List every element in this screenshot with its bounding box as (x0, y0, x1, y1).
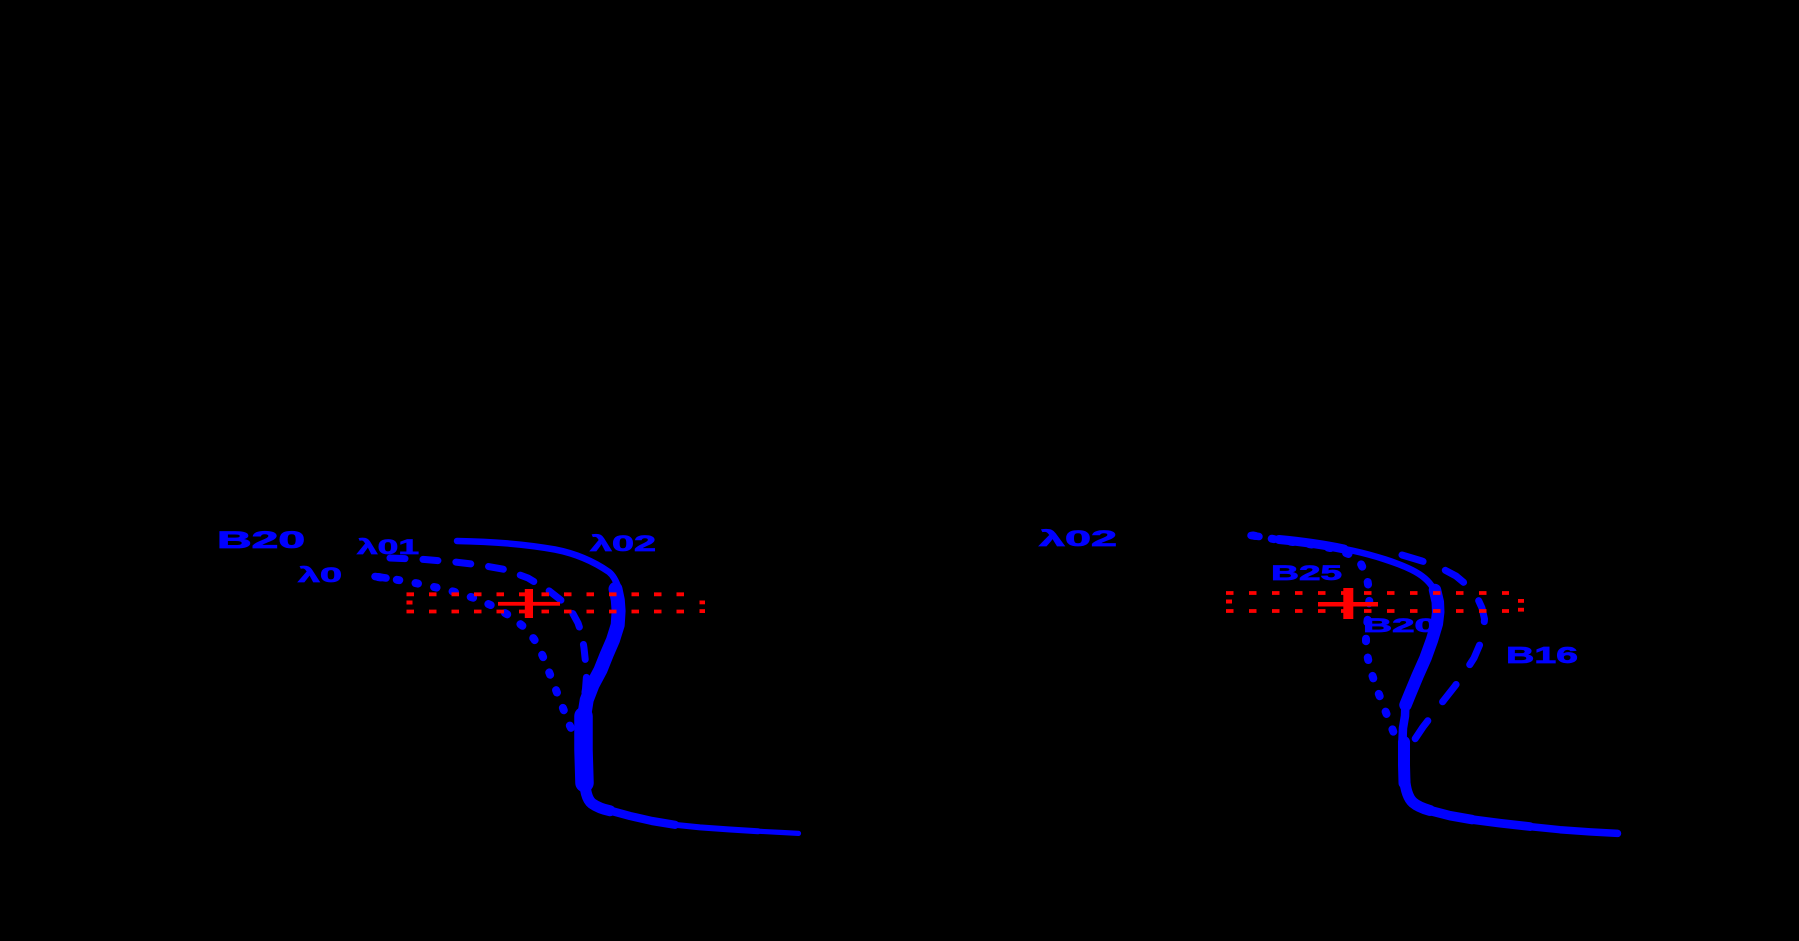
right panel red cross vertical bar (1343, 588, 1353, 619)
left panel solid curve lambda-02 fat descent (585, 589, 619, 712)
left panel dashed curve lambda-01 (390, 558, 587, 701)
left panel solid curve tail end (758, 831, 799, 833)
right panel dotted curve B25 first elongated dot (1251, 536, 1259, 537)
right panel solid curve start thick overlap (1279, 540, 1344, 550)
svg-text:B20: B20 (1363, 616, 1437, 637)
right panel dashed curve B16 (1402, 555, 1485, 750)
right panel red band left edge dot (1226, 600, 1232, 604)
right panel red dotted band top line (1226, 591, 1509, 595)
left panel red dotted band top line (407, 592, 695, 596)
right panel solid curve elbow (1405, 778, 1431, 811)
right panel red cross horizontal bar (1318, 602, 1378, 607)
right panel solid curve tail end (1530, 827, 1618, 834)
left panel red dotted band bottom line (407, 610, 695, 614)
right panel red band right edge dots (1518, 599, 1524, 603)
right panel red dotted band bottom line (1226, 609, 1509, 613)
right panel solid curve trunk (1398, 742, 1411, 783)
left panel red cross horizontal bar (498, 602, 560, 606)
svg-text:B25: B25 (1271, 562, 1343, 585)
left panel red band right edge dots (700, 601, 706, 605)
left panel solid curve trunk (584, 716, 585, 783)
right panel dotted curve B25 (1253, 536, 1398, 746)
svg-text:B16: B16 (1506, 642, 1578, 668)
svg-text:λ0: λ0 (298, 564, 342, 587)
left panel solid curve tail (675, 825, 758, 831)
left panel red cross vertical bar (525, 589, 533, 618)
right panel solid curve neck (1403, 702, 1406, 740)
svg-text:λ02: λ02 (590, 531, 656, 556)
right panel solid curve B20 top arc (1276, 539, 1433, 588)
left panel solid curve tail start (608, 810, 675, 825)
left panel dotted curve lambda-0 (378, 577, 574, 734)
left panel solid curve lambda-02 top arc (457, 541, 619, 588)
svg-text:λ02: λ02 (1039, 526, 1117, 551)
left panel red band left edge dot (407, 601, 413, 605)
left panel solid curve elbow (585, 778, 611, 811)
right panel solid curve tail (1472, 820, 1530, 827)
left panel dotted curve lambda-0 first elongated dot (375, 577, 386, 579)
right panel solid curve tail start (1428, 810, 1472, 820)
right panel solid curve B20 fat descent (1406, 590, 1439, 705)
svg-text:B20: B20 (217, 527, 305, 554)
